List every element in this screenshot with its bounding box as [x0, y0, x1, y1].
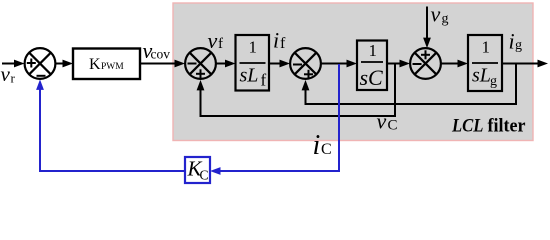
LCL filter shaded region: [173, 3, 533, 141]
S3 sign minus (left): [293, 64, 302, 66]
S2 sign plus (bottom): [196, 69, 205, 78]
wire KPWM to S2, node v_cov: [140, 63, 177, 65]
svg-text:C: C: [388, 118, 398, 134]
wire input v_r: [2, 63, 16, 65]
block 1/sLg: [468, 35, 502, 91]
S3 sign plus (bottom): [304, 70, 313, 79]
wire sC to S4: [387, 63, 402, 65]
node label i_C: [313, 130, 332, 161]
node label i_g: [509, 29, 523, 54]
svg-text:v: v: [431, 2, 441, 27]
block K_C: [185, 157, 210, 184]
wire S3 to block sC: [321, 63, 349, 65]
node label i_f: [273, 28, 286, 53]
svg-text:g: g: [490, 74, 497, 89]
svg-text:1: 1: [249, 38, 258, 57]
S2 sign minus (left): [188, 63, 197, 65]
summing junction S3: [290, 48, 321, 79]
svg-text:g: g: [442, 12, 449, 27]
wire feedback i_g to S3: [306, 64, 517, 105]
svg-text:sL: sL: [472, 65, 491, 87]
svg-text:PWM: PWM: [101, 62, 124, 72]
wire v_g input: [426, 7, 428, 40]
svg-text:f: f: [261, 71, 267, 90]
svg-text:sC: sC: [360, 65, 384, 90]
node label v_r: [1, 62, 16, 86]
svg-text:v: v: [1, 62, 11, 86]
svg-text:K: K: [89, 56, 101, 73]
svg-text:C: C: [200, 168, 209, 183]
summing junction S1: [25, 48, 56, 79]
wire feedback v_C to S2: [201, 64, 396, 117]
block K_PWM: [73, 49, 140, 80]
node label v_C: [377, 109, 398, 134]
svg-text:i: i: [273, 28, 279, 53]
svg-text:cov: cov: [151, 48, 171, 63]
svg-text:v: v: [208, 28, 218, 53]
S1 sign minus (bottom): [37, 75, 46, 77]
wire S4 to block Lg: [441, 63, 460, 65]
wire S1 to KPWM: [55, 63, 64, 65]
svg-text:1: 1: [482, 38, 491, 57]
svg-text:g: g: [515, 38, 522, 53]
S4 sign plus (top): [421, 50, 430, 59]
svg-text:LCL: LCL: [451, 116, 483, 137]
node label v_g: [431, 2, 449, 27]
wire blue i_C tap down to K_C: [219, 64, 340, 171]
S1 sign plus (left): [27, 59, 36, 68]
wire Lf to S3, node i_f: [269, 63, 282, 65]
block 1/sC: [357, 41, 387, 91]
label LCL filter: [451, 116, 526, 137]
node label v_cov: [143, 38, 171, 63]
svg-text:r: r: [11, 71, 16, 86]
svg-text:v: v: [377, 109, 387, 134]
summing junction S2: [185, 48, 216, 79]
block 1/sLf: [236, 35, 270, 91]
svg-text:sL: sL: [240, 65, 259, 87]
svg-text:C: C: [321, 141, 332, 158]
node label v_f: [208, 28, 224, 53]
S4 sign minus (left): [413, 63, 422, 65]
wire blue K_C back to S1: [40, 88, 185, 172]
summing junction S4: [410, 48, 441, 79]
svg-text:f: f: [218, 36, 223, 52]
svg-text:i: i: [313, 130, 321, 161]
svg-text:filter: filter: [488, 116, 527, 137]
wire output i_g: [502, 63, 540, 65]
svg-text:1: 1: [369, 41, 378, 60]
wire S2 to block Lf: [216, 63, 227, 65]
svg-text:i: i: [509, 29, 515, 54]
svg-text:f: f: [280, 35, 286, 52]
